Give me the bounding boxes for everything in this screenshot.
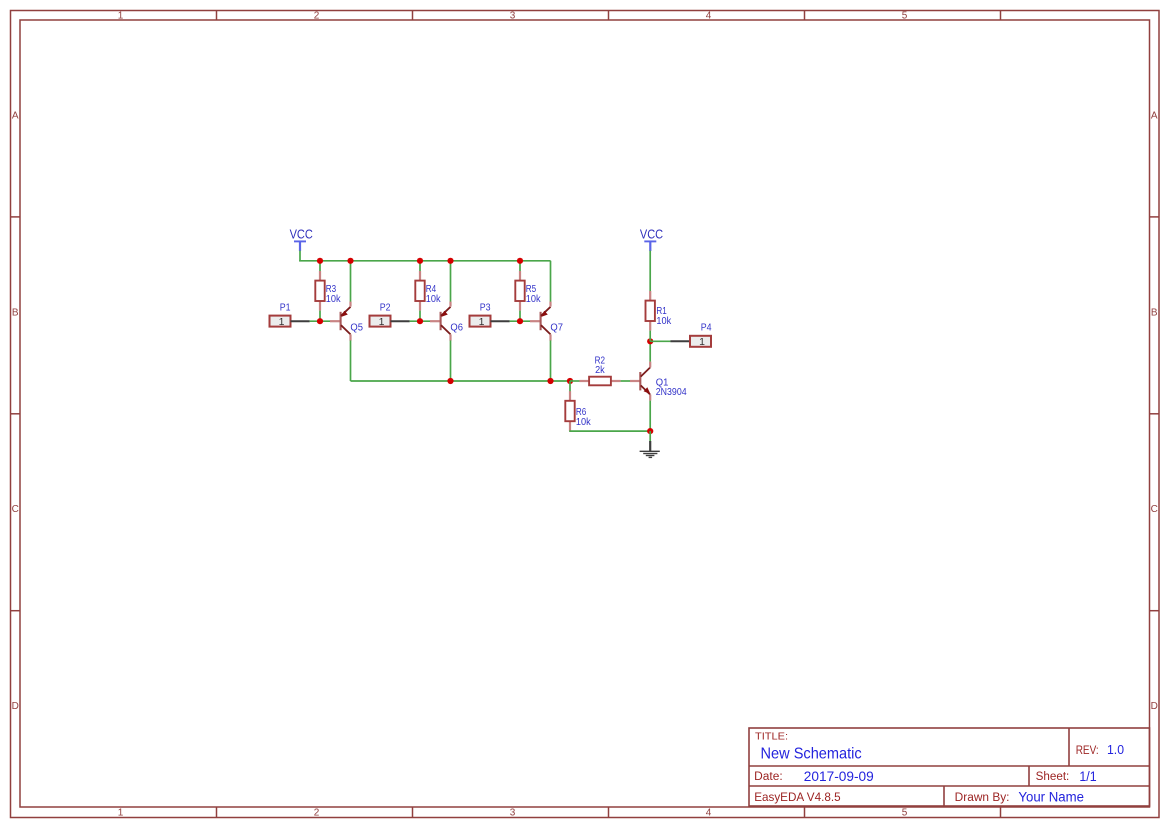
svg-text:2: 2 bbox=[314, 808, 320, 819]
svg-text:C: C bbox=[12, 504, 19, 515]
transistor Q5 base pin bbox=[330, 320, 340, 322]
svg-text:2017-09-09: 2017-09-09 bbox=[804, 769, 874, 784]
transistor Q7 base bar bbox=[540, 312, 542, 330]
wire R5 bottom to base node bbox=[519, 311, 521, 322]
resistor R4 body bbox=[415, 281, 424, 301]
svg-text:1/1: 1/1 bbox=[1079, 769, 1096, 784]
wire VCC2 to R1 bbox=[649, 251, 651, 291]
transistor Q7 emitter arrow bbox=[541, 311, 548, 317]
svg-text:Date:: Date: bbox=[754, 771, 783, 783]
resistor R1 pin 2 (bottom lead) bbox=[649, 319, 651, 331]
transistor Q6 emitter pin (top lead) bbox=[449, 302, 451, 307]
junction node Q5 emitter/VCC rail bbox=[347, 258, 353, 264]
svg-text:10k: 10k bbox=[656, 316, 672, 327]
transistor Q1 base pin bbox=[630, 380, 640, 382]
wire Q1 emitter down to node bbox=[649, 401, 651, 432]
pin P2 body bbox=[370, 316, 391, 327]
transistor Q5 emitter pin (top lead) bbox=[349, 302, 351, 307]
resistor R4 pin 2 (bottom lead) bbox=[419, 299, 421, 311]
transistor Q7 emitter diagonal (top) bbox=[541, 307, 551, 316]
ground symbol bar 1 bbox=[640, 450, 660, 452]
junction node R1/P4/Q1 collector bbox=[647, 338, 653, 344]
transistor Q1 collector diagonal (top) bbox=[641, 367, 651, 376]
frame row tick right 1 bbox=[1150, 216, 1159, 218]
resistor R6 pin 1 (top lead) bbox=[569, 391, 571, 403]
svg-text:5: 5 bbox=[902, 11, 908, 22]
svg-text:C: C bbox=[1151, 504, 1158, 515]
junction node R5/VCC rail bbox=[517, 258, 523, 264]
transistor Q5 base bar bbox=[340, 312, 342, 330]
svg-text:A: A bbox=[1151, 110, 1158, 121]
junction node base Q6 bbox=[417, 318, 423, 324]
transistor Q5 collector diagonal (bottom) bbox=[341, 325, 351, 334]
junction node Q7 collector/bottom rail bbox=[547, 378, 553, 384]
junction node Q6 collector/bottom rail bbox=[447, 378, 453, 384]
wire node down to R6 bbox=[569, 381, 571, 394]
power flag VCC2 symbol stem bbox=[649, 241, 651, 251]
title block DrawnBy divider bbox=[943, 786, 945, 806]
transistor Q6 emitter arrow bbox=[441, 311, 448, 317]
junction node base Q5 bbox=[317, 318, 323, 324]
transistor Q5 emitter diagonal (top) bbox=[341, 307, 351, 316]
resistor R5 pin 2 (bottom lead) bbox=[519, 299, 521, 311]
transistor Q7 base pin bbox=[530, 320, 540, 322]
ground symbol bar 4 bbox=[649, 456, 653, 458]
frame row tick right 2 bbox=[1150, 413, 1159, 415]
svg-text:Sheet:: Sheet: bbox=[1036, 771, 1070, 783]
svg-text:P4: P4 bbox=[701, 323, 712, 334]
resistor R1 pin 1 (top lead) bbox=[649, 291, 651, 303]
transistor Q1 collector pin (top lead) bbox=[649, 362, 651, 368]
resistor R3 pin 1 (top lead) bbox=[319, 271, 321, 283]
svg-text:5: 5 bbox=[902, 808, 908, 819]
title block row divider 1 bbox=[749, 765, 1150, 767]
wire P2 lead to base junction bbox=[410, 320, 431, 322]
svg-text:10k: 10k bbox=[576, 417, 592, 428]
transistor Q6 emitter diagonal (top) bbox=[441, 307, 451, 316]
junction node Q1 emitter/R6/ground bbox=[647, 428, 653, 434]
svg-text:P2: P2 bbox=[380, 302, 391, 313]
frame row tick left 1 bbox=[11, 216, 21, 218]
svg-text:P1: P1 bbox=[280, 302, 291, 313]
wire Q6 emitter drop bbox=[450, 261, 452, 302]
frame column tick top 5 bbox=[1000, 11, 1002, 21]
svg-text:4: 4 bbox=[706, 11, 712, 22]
svg-text:D: D bbox=[12, 701, 19, 712]
svg-text:New Schematic: New Schematic bbox=[761, 746, 862, 763]
svg-text:10k: 10k bbox=[426, 294, 442, 305]
wire R1 to collector node bbox=[649, 331, 651, 342]
svg-text:1: 1 bbox=[699, 336, 705, 348]
pin P4 body bbox=[690, 336, 711, 347]
wire node to P4 lead bbox=[650, 340, 670, 342]
svg-text:1.0: 1.0 bbox=[1107, 742, 1124, 757]
transistor Q1 base bar bbox=[639, 372, 641, 390]
resistor R2 body bbox=[589, 377, 611, 386]
pin P3 body bbox=[470, 316, 491, 327]
svg-text:B: B bbox=[12, 307, 19, 318]
wire R4 bottom to base node bbox=[419, 311, 421, 322]
wire top VCC rail bbox=[299, 260, 550, 262]
wire Q5 collector drop to bottom rail bbox=[350, 340, 352, 381]
wire R5 top bbox=[519, 261, 521, 271]
svg-text:1: 1 bbox=[379, 316, 385, 328]
transistor Q7 collector diagonal (bottom) bbox=[541, 325, 551, 334]
title block REV divider bbox=[1068, 728, 1070, 766]
wire Q7 emitter drop bbox=[550, 261, 552, 302]
wire(black lead) P3 to node bbox=[491, 320, 510, 322]
svg-text:Drawn By:: Drawn By: bbox=[955, 792, 1010, 804]
resistor R3 body bbox=[315, 281, 324, 301]
junction node base Q7 bbox=[517, 318, 523, 324]
wire R3 bottom to base node bbox=[319, 311, 321, 322]
wire node to ground bbox=[649, 431, 651, 441]
resistor R5 pin 1 (top lead) bbox=[519, 271, 521, 283]
svg-text:4: 4 bbox=[706, 808, 712, 819]
svg-text:2N3904: 2N3904 bbox=[656, 387, 687, 398]
resistor R6 body bbox=[565, 401, 574, 421]
junction node R4/VCC rail bbox=[417, 258, 423, 264]
svg-text:Your Name: Your Name bbox=[1018, 789, 1084, 804]
svg-text:Q7: Q7 bbox=[550, 322, 563, 333]
power flag VCC1 symbol stem bbox=[299, 241, 301, 251]
ground symbol stem bbox=[649, 441, 651, 451]
svg-text:1: 1 bbox=[118, 808, 124, 819]
ground symbol bar 2 bbox=[643, 453, 657, 455]
frame column tick top 4 bbox=[804, 11, 806, 21]
transistor Q6 collector diagonal (bottom) bbox=[441, 325, 451, 334]
transistor Q6 base bar bbox=[440, 312, 442, 330]
svg-text:1: 1 bbox=[279, 316, 285, 328]
transistor Q5 emitter arrow bbox=[341, 311, 348, 317]
transistor Q1 emitter pin (bottom lead) bbox=[649, 395, 651, 401]
svg-text:VCC: VCC bbox=[290, 228, 313, 242]
transistor Q6 base pin bbox=[430, 320, 440, 322]
wire VCC1 drop bbox=[299, 251, 301, 261]
resistor R3 pin 2 (bottom lead) bbox=[319, 299, 321, 311]
wire bottom rail to R2 bbox=[570, 380, 581, 382]
resistor R1 body bbox=[646, 301, 655, 321]
svg-text:REV:: REV: bbox=[1076, 745, 1099, 757]
transistor Q7 collector pin (bottom lead) bbox=[549, 334, 551, 340]
transistor Q6 collector pin (bottom lead) bbox=[449, 334, 451, 340]
pin P1 body bbox=[270, 316, 291, 327]
title block outline bbox=[749, 728, 1150, 806]
wire(black lead) P1 to node bbox=[291, 320, 310, 322]
svg-text:Q6: Q6 bbox=[450, 322, 463, 333]
wire R4 top bbox=[419, 261, 421, 271]
svg-text:2: 2 bbox=[314, 11, 320, 22]
svg-text:3: 3 bbox=[510, 808, 516, 819]
resistor R4 pin 1 (top lead) bbox=[419, 271, 421, 283]
title block row divider 2 bbox=[749, 785, 1150, 787]
frame row tick right 3 bbox=[1150, 610, 1159, 612]
wire R2 to Q1 base bbox=[621, 380, 631, 382]
svg-text:B: B bbox=[1151, 307, 1158, 318]
junction node R3/VCC rail bbox=[317, 258, 323, 264]
svg-text:3: 3 bbox=[510, 11, 516, 22]
power flag VCC1 symbol bar bbox=[294, 240, 306, 242]
wire Q7 collector drop to bottom rail bbox=[550, 340, 552, 381]
frame column tick bottom 5 bbox=[1000, 807, 1002, 818]
wire P1 lead to base junction bbox=[310, 320, 331, 322]
transistor Q1 emitter diagonal (bottom) bbox=[641, 385, 651, 394]
svg-text:10k: 10k bbox=[326, 294, 342, 305]
frame column tick bottom 3 bbox=[608, 807, 610, 818]
svg-text:A: A bbox=[12, 110, 19, 121]
svg-text:10k: 10k bbox=[526, 294, 542, 305]
ground symbol bar 3 bbox=[646, 455, 655, 457]
frame column tick bottom 4 bbox=[804, 807, 806, 818]
svg-text:P3: P3 bbox=[480, 302, 491, 313]
svg-text:TITLE:: TITLE: bbox=[755, 732, 788, 743]
wire(black lead) node to P4 bbox=[670, 340, 690, 342]
svg-text:VCC: VCC bbox=[640, 228, 663, 242]
power flag VCC2 symbol bar bbox=[644, 240, 656, 242]
frame column tick top 1 bbox=[216, 11, 218, 21]
wire P3 lead to base junction bbox=[510, 320, 531, 322]
svg-text:D: D bbox=[1151, 701, 1158, 712]
frame column tick top 3 bbox=[608, 11, 610, 21]
resistor R2 pin 2 (right lead) bbox=[608, 380, 620, 382]
resistor R5 body bbox=[515, 281, 524, 301]
resistor R2 pin 1 (left lead) bbox=[579, 380, 591, 382]
frame column tick top 2 bbox=[412, 11, 414, 21]
title block Sheet divider bbox=[1028, 766, 1030, 786]
frame row tick left 3 bbox=[11, 610, 21, 612]
wire Q5 emitter drop bbox=[350, 261, 352, 302]
frame column tick bottom 1 bbox=[216, 807, 218, 818]
wire Q1 collector to node bbox=[649, 341, 651, 361]
wire R3 top bbox=[319, 261, 321, 271]
frame column tick bottom 2 bbox=[412, 807, 414, 818]
junction node Q6 emitter/VCC rail bbox=[447, 258, 453, 264]
transistor Q5 collector pin (bottom lead) bbox=[349, 334, 351, 340]
svg-text:1: 1 bbox=[118, 11, 124, 22]
wire R6 bottom corner to emitter node bbox=[570, 429, 650, 432]
resistor R6 pin 2 (bottom lead) bbox=[569, 419, 571, 431]
wire Q6 collector drop to bottom rail bbox=[450, 340, 452, 381]
wire bottom rail (collectors to R2/R6 node) bbox=[351, 380, 571, 382]
junction node R2/R6/bottom rail bbox=[567, 378, 573, 384]
svg-text:Q5: Q5 bbox=[350, 322, 363, 333]
svg-text:EasyEDA V4.8.5: EasyEDA V4.8.5 bbox=[754, 790, 841, 804]
transistor Q1 emitter arrow bbox=[644, 387, 651, 394]
wire(black lead) P2 to node bbox=[391, 320, 410, 322]
transistor Q7 emitter pin (top lead) bbox=[549, 302, 551, 307]
svg-text:2k: 2k bbox=[595, 365, 606, 376]
svg-text:1: 1 bbox=[479, 316, 485, 328]
frame row tick left 2 bbox=[11, 413, 21, 415]
